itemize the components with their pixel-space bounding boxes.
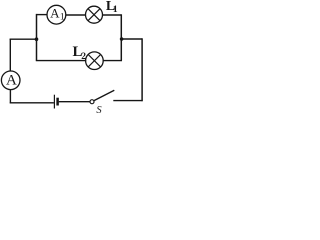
label L2	[73, 44, 87, 62]
battery cell	[54, 95, 57, 109]
wire lamp L2 to right vertical	[103, 60, 122, 62]
svg-text:S: S	[96, 105, 102, 116]
junction right node	[120, 37, 124, 41]
wire ammeter A1 to lamp L1	[66, 14, 86, 16]
wire right node to outer corner	[121, 38, 142, 40]
svg-text:A: A	[50, 5, 60, 20]
svg-text:1: 1	[113, 5, 118, 15]
wire lamp L1 to top-right corner	[102, 14, 121, 16]
lamp L1	[86, 6, 103, 23]
label L1	[106, 0, 118, 15]
svg-text:A: A	[6, 73, 17, 89]
wire left vertical upper	[9, 39, 11, 71]
wire top-left stub to ammeter A1	[37, 14, 48, 16]
svg-text:2: 2	[81, 52, 86, 62]
lamp L2	[86, 52, 104, 70]
wire left vertical lower	[9, 89, 11, 103]
wire middle-left vertical	[36, 14, 38, 61]
wire switch to battery	[59, 101, 90, 103]
junction left node	[35, 37, 39, 41]
wire junction to lamp L2	[36, 60, 86, 62]
switch S	[90, 90, 114, 104]
ammeter A1	[47, 5, 66, 24]
wire left horizontal to junction	[10, 38, 37, 40]
wire outer right vertical	[141, 38, 143, 101]
wire bottom right to switch	[113, 100, 142, 102]
wire battery to bottom-left	[10, 102, 54, 104]
svg-text:1: 1	[60, 12, 65, 22]
ammeter A	[1, 71, 20, 90]
wire right middle vertical	[120, 14, 122, 60]
